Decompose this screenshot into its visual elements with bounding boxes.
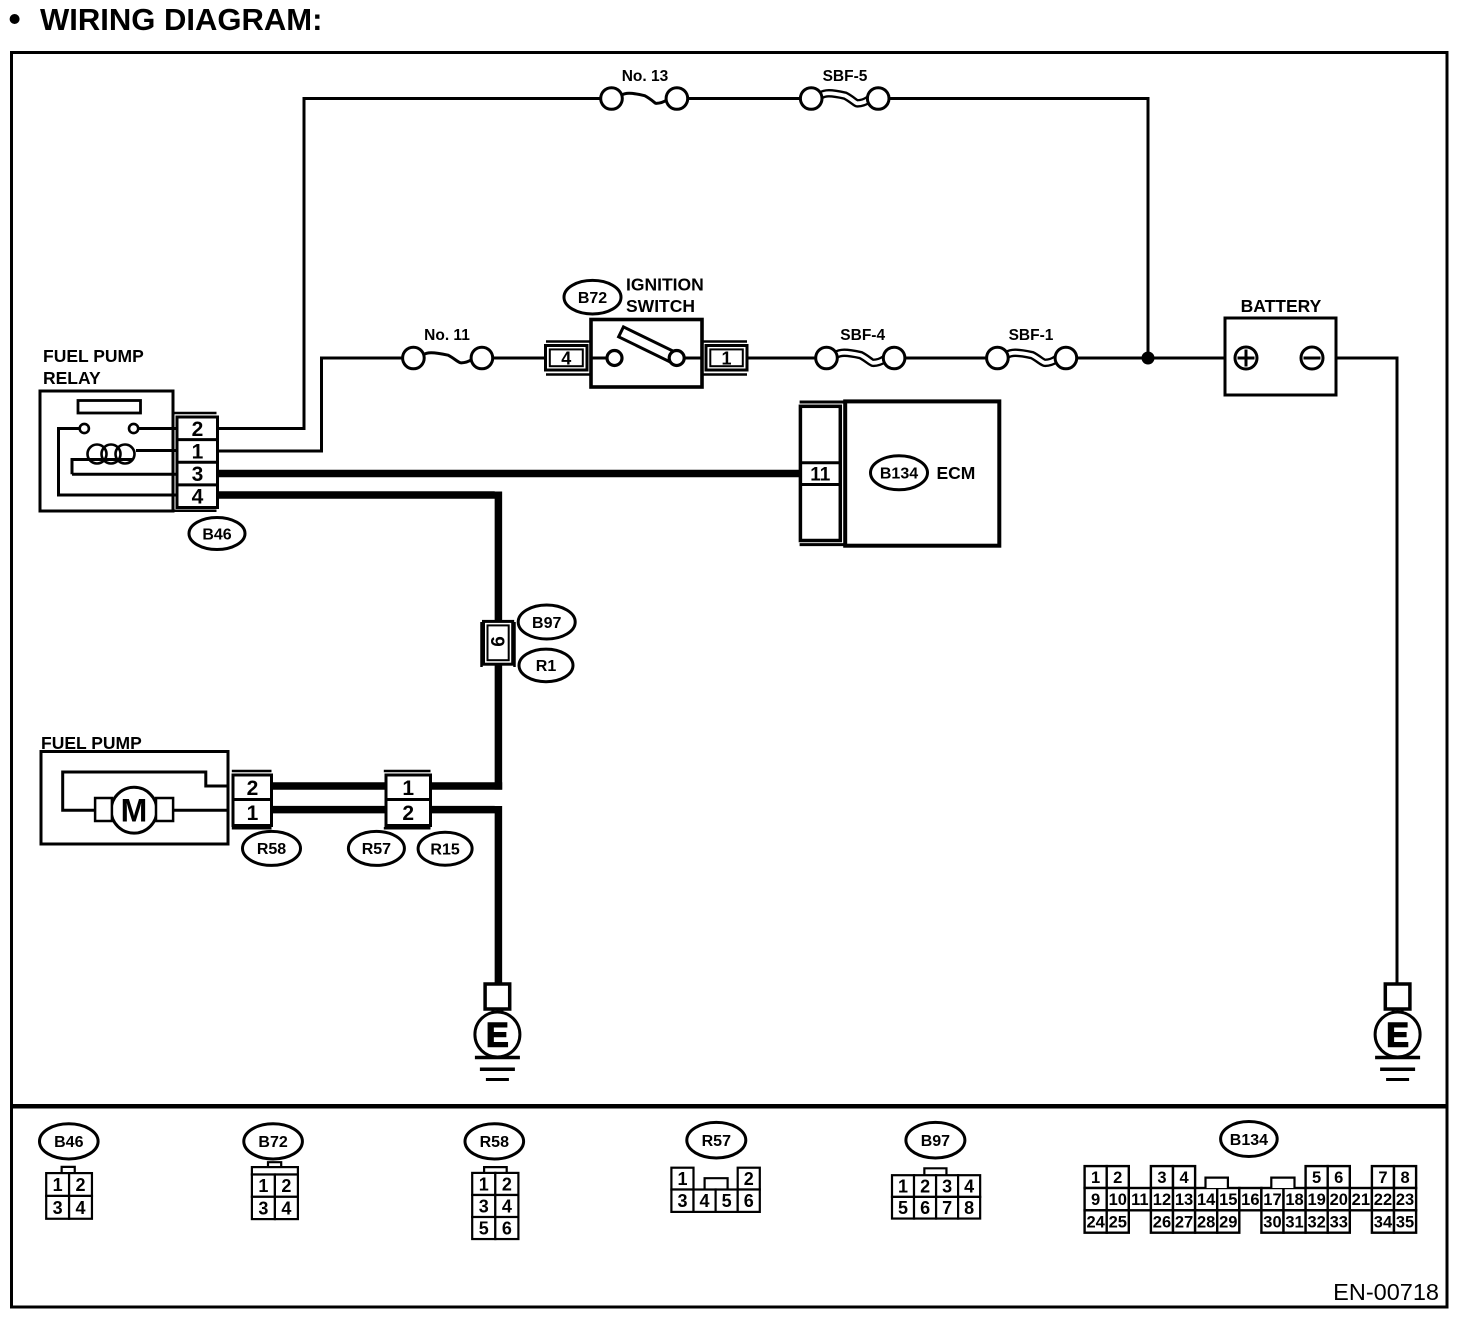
svg-text:18: 18 (1285, 1191, 1303, 1209)
svg-text:B134: B134 (880, 466, 918, 483)
svg-text:33: 33 (1330, 1214, 1348, 1232)
svg-text:14: 14 (1197, 1191, 1216, 1209)
svg-text:2: 2 (1113, 1169, 1122, 1187)
svg-text:SBF-1: SBF-1 (1009, 327, 1054, 344)
svg-text:3: 3 (1157, 1169, 1166, 1187)
svg-text:2: 2 (402, 802, 414, 825)
svg-text:4: 4 (964, 1177, 974, 1197)
svg-text:23: 23 (1396, 1191, 1414, 1209)
svg-text:8: 8 (1400, 1169, 1409, 1187)
svg-text:2: 2 (920, 1177, 930, 1197)
svg-text:EN-00718: EN-00718 (1333, 1279, 1439, 1305)
svg-text:35: 35 (1396, 1214, 1414, 1232)
svg-text:B97: B97 (921, 1133, 950, 1150)
svg-text:BATTERY: BATTERY (1241, 296, 1322, 316)
svg-text:E: E (486, 1016, 509, 1054)
svg-text:R57: R57 (362, 841, 391, 858)
svg-text:1: 1 (1091, 1169, 1100, 1187)
svg-text:1: 1 (192, 441, 204, 464)
svg-text:3: 3 (53, 1198, 63, 1218)
svg-text:R58: R58 (257, 841, 286, 858)
svg-text:B72: B72 (578, 290, 607, 307)
svg-text:17: 17 (1263, 1191, 1281, 1209)
svg-text:1: 1 (53, 1175, 63, 1195)
svg-text:4: 4 (1179, 1169, 1189, 1187)
svg-text:3: 3 (942, 1177, 952, 1197)
svg-text:5: 5 (479, 1219, 489, 1239)
svg-text:32: 32 (1307, 1214, 1325, 1232)
svg-text:2: 2 (192, 418, 204, 441)
svg-text:3: 3 (192, 463, 204, 486)
svg-text:22: 22 (1374, 1191, 1392, 1209)
svg-text:1: 1 (258, 1176, 268, 1196)
svg-text:B46: B46 (202, 526, 231, 543)
svg-text:6: 6 (744, 1191, 754, 1211)
svg-text:R57: R57 (702, 1133, 731, 1150)
svg-text:SBF-4: SBF-4 (840, 327, 885, 344)
svg-text:27: 27 (1175, 1214, 1193, 1232)
svg-text:4: 4 (281, 1198, 291, 1218)
svg-text:1: 1 (677, 1169, 687, 1189)
svg-text:13: 13 (1175, 1191, 1193, 1209)
svg-text:1: 1 (479, 1174, 489, 1194)
svg-text:2: 2 (502, 1174, 512, 1194)
svg-text:12: 12 (1153, 1191, 1171, 1209)
svg-text:WIRING DIAGRAM:: WIRING DIAGRAM: (40, 2, 322, 37)
svg-text:ECM: ECM (937, 463, 976, 483)
svg-text:4: 4 (192, 486, 204, 509)
svg-text:29: 29 (1219, 1214, 1237, 1232)
svg-text:SWITCH: SWITCH (626, 296, 695, 316)
svg-text:4: 4 (502, 1196, 512, 1216)
svg-text:B46: B46 (54, 1134, 83, 1151)
svg-text:20: 20 (1330, 1191, 1348, 1209)
svg-text:24: 24 (1086, 1214, 1105, 1232)
svg-text:RELAY: RELAY (43, 368, 101, 388)
svg-text:R58: R58 (480, 1134, 509, 1151)
svg-text:1: 1 (402, 777, 414, 800)
svg-text:8: 8 (964, 1198, 974, 1218)
svg-text:5: 5 (1312, 1169, 1321, 1187)
svg-text:4: 4 (75, 1198, 85, 1218)
svg-text:6: 6 (489, 636, 510, 647)
svg-text:B72: B72 (258, 1134, 287, 1151)
svg-text:31: 31 (1285, 1214, 1303, 1232)
svg-text:2: 2 (744, 1169, 754, 1189)
svg-text:4: 4 (561, 349, 571, 369)
svg-text:1: 1 (898, 1177, 908, 1197)
svg-text:3: 3 (258, 1198, 268, 1218)
svg-text:IGNITION: IGNITION (626, 274, 704, 294)
svg-text:5: 5 (722, 1191, 732, 1211)
svg-text:6: 6 (1334, 1169, 1343, 1187)
svg-text:2: 2 (75, 1175, 85, 1195)
svg-text:21: 21 (1352, 1191, 1370, 1209)
svg-text:M: M (121, 793, 148, 829)
svg-text:5: 5 (898, 1198, 908, 1218)
svg-text:2: 2 (281, 1176, 291, 1196)
svg-text:25: 25 (1109, 1214, 1127, 1232)
svg-text:6: 6 (502, 1219, 512, 1239)
svg-text:No. 11: No. 11 (424, 327, 470, 344)
svg-text:B134: B134 (1230, 1132, 1268, 1149)
svg-text:10: 10 (1109, 1191, 1127, 1209)
svg-text:1: 1 (247, 802, 259, 825)
svg-text:E: E (1386, 1016, 1409, 1054)
svg-text:26: 26 (1153, 1214, 1171, 1232)
svg-text:2: 2 (247, 777, 259, 800)
svg-text:19: 19 (1307, 1191, 1325, 1209)
svg-text:R15: R15 (430, 841, 459, 858)
svg-text:30: 30 (1263, 1214, 1281, 1232)
svg-text:7: 7 (1378, 1169, 1387, 1187)
svg-text:FUEL PUMP: FUEL PUMP (43, 346, 144, 366)
svg-text:No. 13: No. 13 (622, 68, 669, 85)
svg-text:6: 6 (920, 1198, 930, 1218)
svg-text:1: 1 (721, 349, 731, 369)
svg-text:9: 9 (1091, 1191, 1100, 1209)
svg-text:SBF-5: SBF-5 (823, 68, 868, 85)
svg-text:28: 28 (1197, 1214, 1215, 1232)
svg-text:11: 11 (810, 464, 831, 485)
svg-text:R1: R1 (536, 658, 557, 675)
svg-text:4: 4 (700, 1191, 710, 1211)
svg-text:3: 3 (479, 1196, 489, 1216)
svg-text:11: 11 (1131, 1191, 1148, 1209)
svg-text:3: 3 (677, 1191, 687, 1211)
svg-text:15: 15 (1219, 1191, 1237, 1209)
svg-text:B97: B97 (532, 615, 561, 632)
svg-text:7: 7 (942, 1198, 952, 1218)
svg-text:16: 16 (1241, 1191, 1259, 1209)
svg-text:34: 34 (1374, 1214, 1393, 1232)
